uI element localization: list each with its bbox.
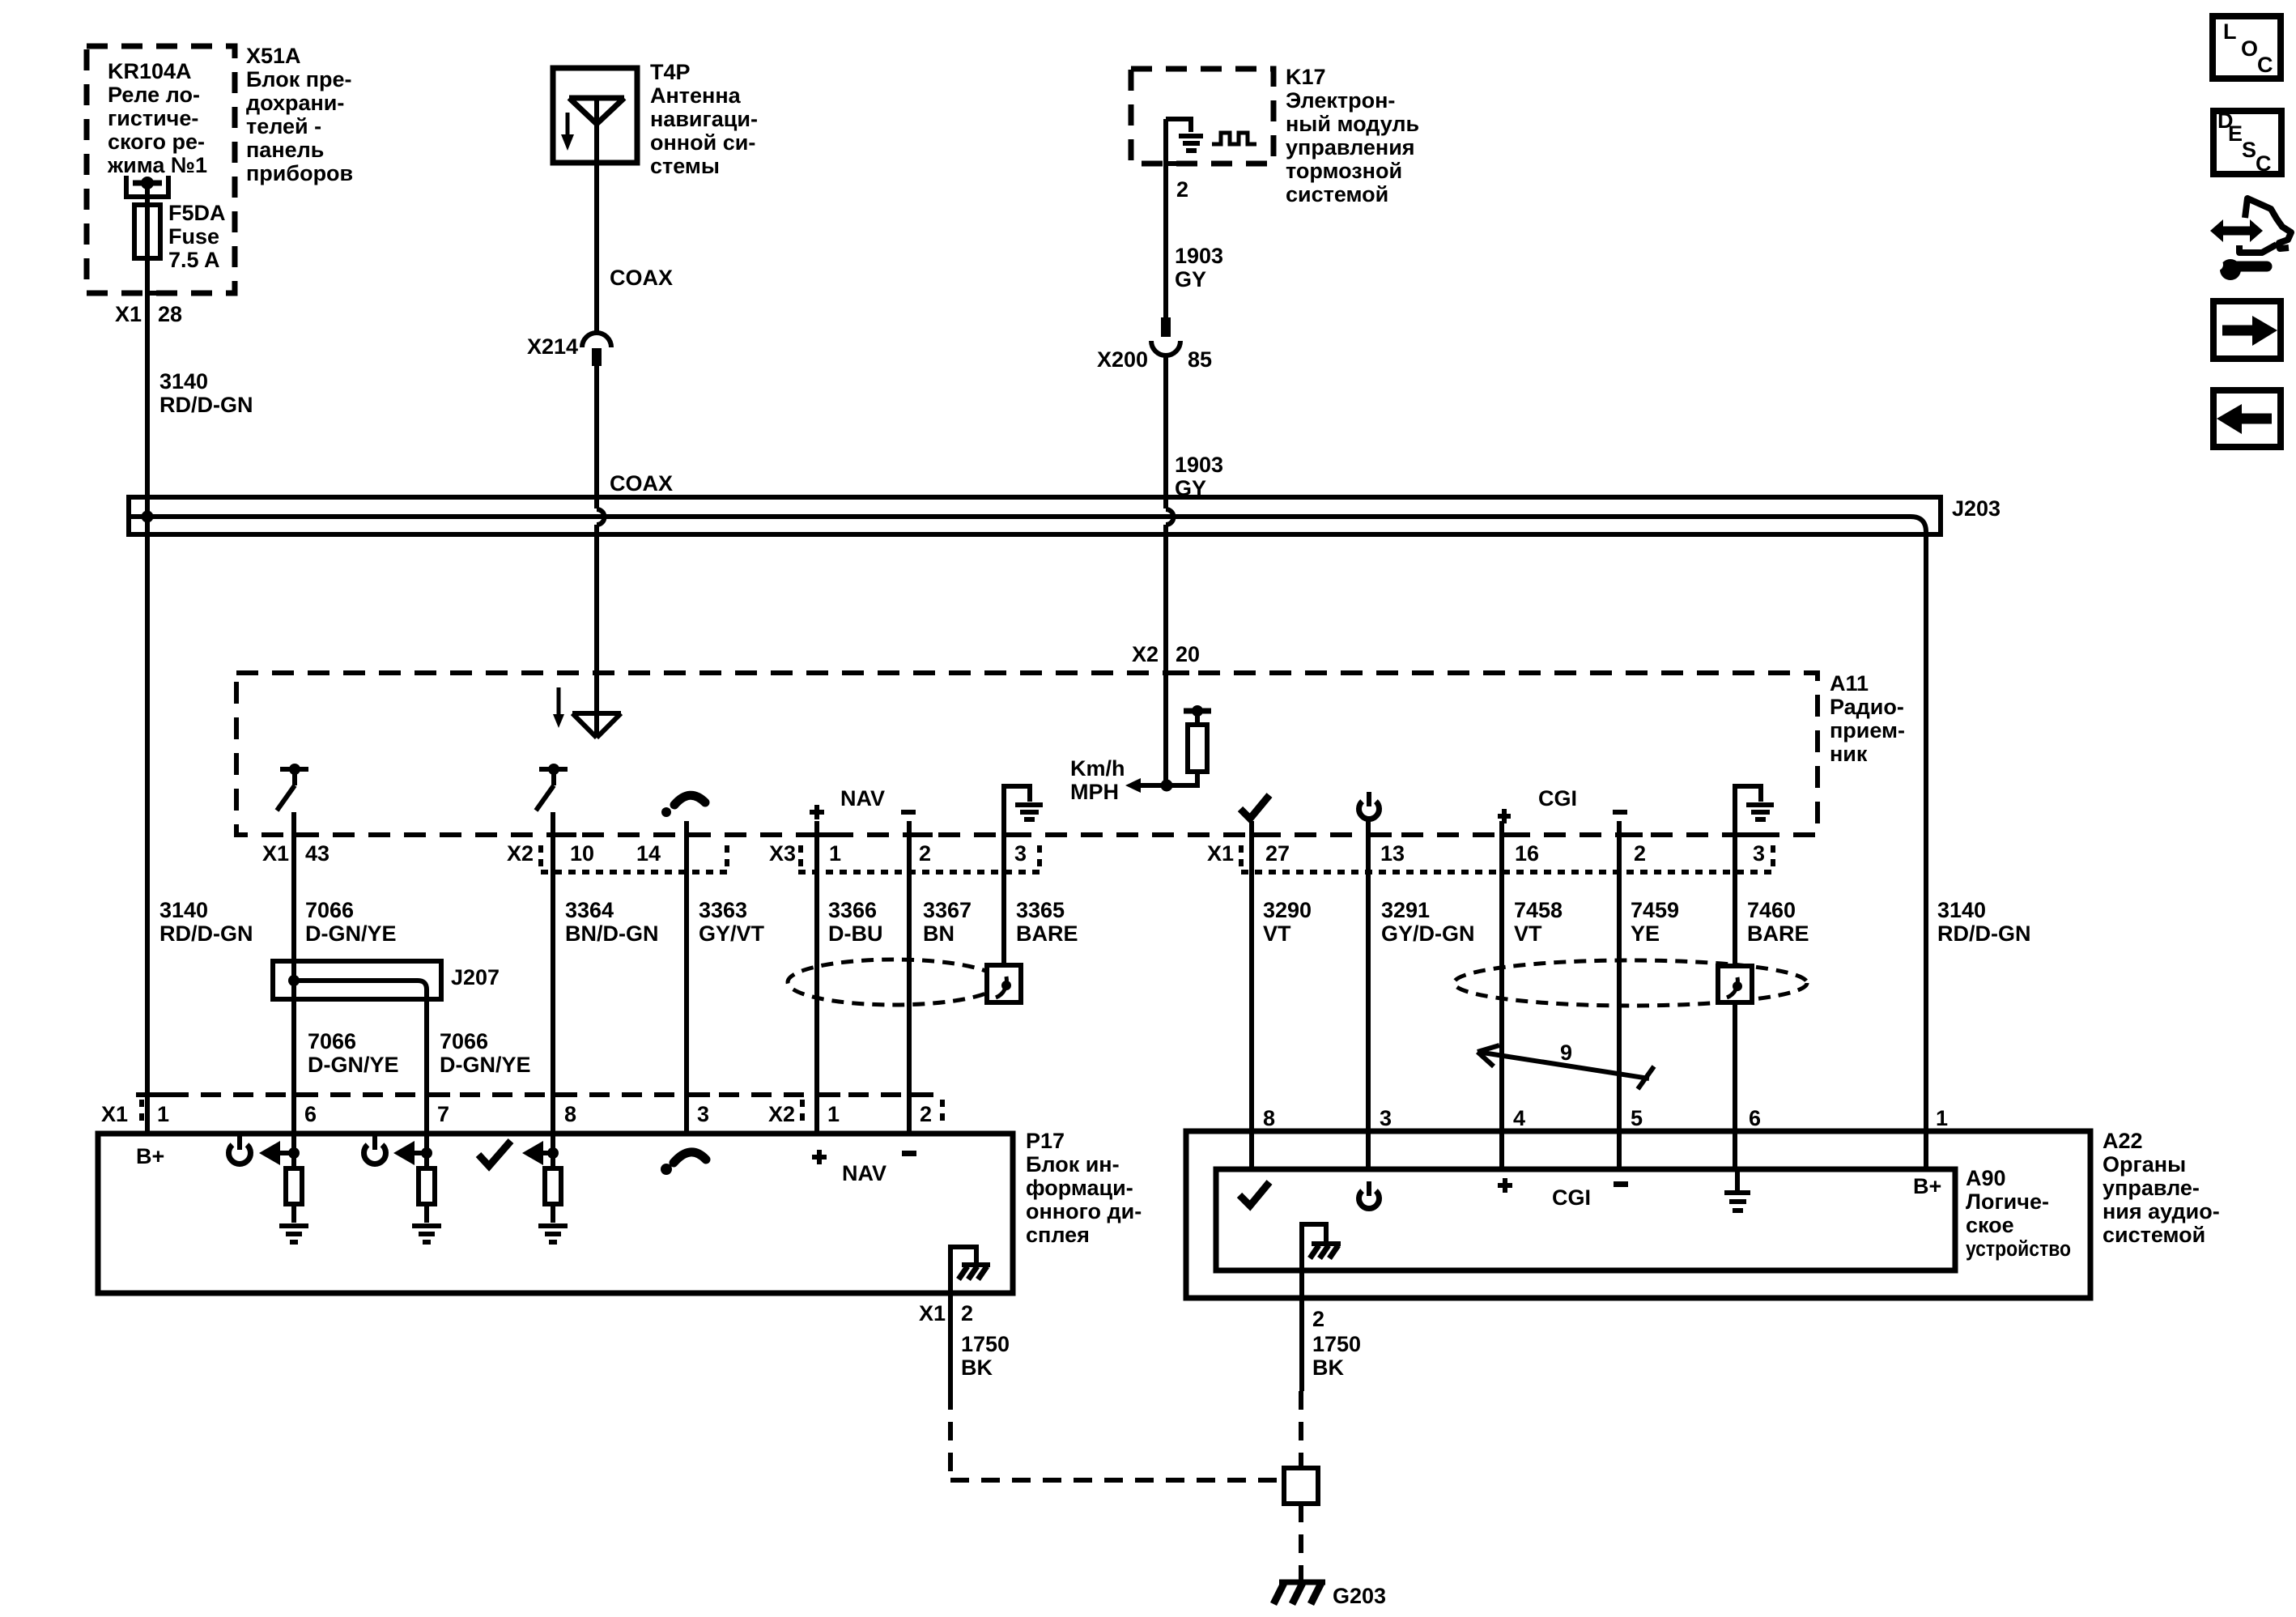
svg-text:сплея: сплея (1026, 1223, 1090, 1247)
svg-text:1: 1 (1936, 1106, 1948, 1130)
svg-text:27: 27 (1265, 841, 1290, 866)
svg-text:1750: 1750 (1312, 1332, 1361, 1356)
svg-text:X1: X1 (919, 1301, 946, 1326)
svg-text:J207: J207 (451, 965, 500, 989)
svg-text:гистиче-: гистиче- (108, 106, 198, 130)
svg-text:T4P: T4P (650, 60, 691, 84)
svg-text:7066: 7066 (305, 898, 354, 922)
svg-text:20: 20 (1176, 642, 1200, 666)
svg-text:GY/VT: GY/VT (699, 921, 765, 946)
svg-text:7458: 7458 (1514, 898, 1563, 922)
svg-text:GY: GY (1175, 267, 1206, 291)
svg-text:онной си-: онной си- (650, 130, 755, 155)
svg-text:E: E (2228, 121, 2243, 146)
svg-text:9: 9 (1560, 1040, 1572, 1065)
svg-text:Fuse: Fuse (168, 224, 219, 249)
svg-text:B+: B+ (136, 1144, 164, 1168)
svg-text:4: 4 (1513, 1106, 1525, 1130)
svg-text:7066: 7066 (440, 1029, 488, 1053)
svg-text:3364: 3364 (565, 898, 614, 922)
svg-text:BARE: BARE (1016, 921, 1078, 946)
svg-text:7.5 A: 7.5 A (168, 248, 220, 272)
svg-text:2: 2 (1634, 841, 1646, 866)
svg-text:3363: 3363 (699, 898, 747, 922)
svg-text:X2: X2 (507, 841, 534, 866)
svg-text:F5DA: F5DA (168, 201, 226, 225)
svg-text:Антенна: Антенна (650, 83, 742, 108)
svg-text:3291: 3291 (1381, 898, 1430, 922)
svg-text:MPH: MPH (1070, 780, 1119, 804)
svg-text:85: 85 (1188, 347, 1212, 372)
svg-text:1903: 1903 (1175, 453, 1223, 477)
svg-text:системой: системой (2103, 1223, 2205, 1247)
svg-text:ник: ник (1830, 742, 1868, 766)
svg-text:Органы: Органы (2103, 1152, 2186, 1177)
svg-text:A90: A90 (1966, 1166, 2006, 1190)
svg-text:D-BU: D-BU (828, 921, 883, 946)
svg-text:стемы: стемы (650, 154, 720, 178)
svg-text:ского ре-: ского ре- (108, 130, 205, 154)
svg-text:3140: 3140 (1937, 898, 1986, 922)
svg-text:A22: A22 (2103, 1129, 2143, 1153)
svg-text:7460: 7460 (1747, 898, 1796, 922)
svg-text:C: C (2256, 151, 2272, 176)
svg-text:тормозной: тормозной (1286, 159, 1402, 183)
svg-text:8: 8 (564, 1102, 576, 1126)
svg-text:BN: BN (923, 921, 955, 946)
svg-text:KR104A: KR104A (108, 59, 192, 83)
svg-text:3: 3 (1753, 841, 1765, 866)
svg-text:BK: BK (961, 1355, 993, 1380)
svg-text:D-GN/YE: D-GN/YE (305, 921, 397, 946)
svg-text:X200: X200 (1097, 347, 1148, 372)
svg-text:CGI: CGI (1538, 786, 1577, 811)
svg-text:Реле ло-: Реле ло- (108, 83, 200, 107)
svg-text:J203: J203 (1952, 496, 2000, 521)
svg-text:CGI: CGI (1552, 1185, 1591, 1210)
svg-text:3: 3 (1014, 841, 1027, 866)
svg-text:навигаци-: навигаци- (650, 107, 758, 131)
svg-text:X1: X1 (101, 1102, 128, 1126)
svg-text:Km/h: Km/h (1070, 756, 1125, 781)
svg-text:1750: 1750 (961, 1332, 1010, 1356)
svg-text:1: 1 (157, 1102, 169, 1126)
svg-text:3290: 3290 (1263, 898, 1312, 922)
svg-text:VT: VT (1263, 921, 1291, 946)
svg-text:GY/D-GN: GY/D-GN (1381, 921, 1475, 946)
svg-text:16: 16 (1515, 841, 1539, 866)
svg-text:6: 6 (1749, 1106, 1761, 1130)
svg-text:Блок пре-: Блок пре- (246, 67, 352, 91)
svg-text:BARE: BARE (1747, 921, 1809, 946)
svg-text:NAV: NAV (840, 786, 885, 811)
svg-text:14: 14 (636, 841, 661, 866)
svg-text:устройство: устройство (1966, 1236, 2071, 1261)
svg-text:3140: 3140 (159, 369, 208, 394)
svg-text:P17: P17 (1026, 1129, 1065, 1153)
svg-text:7: 7 (437, 1102, 449, 1126)
svg-text:NAV: NAV (842, 1161, 887, 1185)
svg-text:RD/D-GN: RD/D-GN (1937, 921, 2031, 946)
svg-text:X1: X1 (115, 302, 142, 326)
svg-text:управле-: управле- (2103, 1176, 2200, 1200)
svg-text:COAX: COAX (610, 266, 673, 290)
svg-text:3365: 3365 (1016, 898, 1065, 922)
svg-text:C: C (2257, 53, 2273, 77)
svg-text:S: S (2242, 138, 2256, 162)
svg-text:B+: B+ (1913, 1174, 1941, 1198)
svg-text:X1: X1 (262, 841, 289, 866)
svg-text:системой: системой (1286, 182, 1388, 206)
svg-text:X214: X214 (527, 334, 578, 359)
svg-text:A11: A11 (1830, 671, 1869, 696)
svg-text:1: 1 (827, 1102, 840, 1126)
svg-text:X2: X2 (768, 1102, 795, 1126)
svg-text:13: 13 (1380, 841, 1405, 866)
svg-text:3: 3 (697, 1102, 709, 1126)
svg-text:BN/D-GN: BN/D-GN (565, 921, 659, 946)
svg-text:X1: X1 (1207, 841, 1234, 866)
svg-text:1903: 1903 (1175, 244, 1223, 268)
svg-text:X2: X2 (1132, 642, 1159, 666)
svg-text:телей -: телей - (246, 114, 321, 138)
svg-text:формаци-: формаци- (1026, 1176, 1133, 1200)
svg-text:RD/D-GN: RD/D-GN (159, 393, 253, 417)
svg-text:O: O (2241, 36, 2258, 61)
svg-text:Радио-: Радио- (1830, 695, 1904, 719)
svg-text:2: 2 (961, 1301, 973, 1326)
svg-text:5: 5 (1631, 1106, 1643, 1130)
svg-text:дохрани-: дохрани- (246, 91, 344, 115)
svg-text:3140: 3140 (159, 898, 208, 922)
svg-text:L: L (2223, 19, 2237, 44)
svg-text:Электрон-: Электрон- (1286, 88, 1395, 113)
svg-text:YE: YE (1631, 921, 1660, 946)
svg-text:ный модуль: ный модуль (1286, 112, 1419, 136)
svg-text:GY: GY (1175, 476, 1206, 500)
svg-text:панель: панель (246, 138, 324, 162)
svg-text:ское: ское (1966, 1213, 2014, 1237)
svg-text:G203: G203 (1333, 1584, 1386, 1608)
svg-text:3366: 3366 (828, 898, 877, 922)
svg-text:2: 2 (1312, 1307, 1324, 1331)
svg-text:2: 2 (919, 841, 931, 866)
svg-text:Логиче-: Логиче- (1966, 1189, 2049, 1214)
svg-text:приборов: приборов (246, 161, 353, 185)
svg-text:COAX: COAX (610, 471, 673, 496)
svg-text:D-GN/YE: D-GN/YE (308, 1053, 399, 1077)
svg-text:VT: VT (1514, 921, 1542, 946)
svg-text:X3: X3 (769, 841, 796, 866)
svg-text:управления: управления (1286, 135, 1415, 160)
svg-text:3: 3 (1380, 1106, 1392, 1130)
svg-text:RD/D-GN: RD/D-GN (159, 921, 253, 946)
svg-text:онного ди-: онного ди- (1026, 1199, 1142, 1223)
svg-text:ния аудио-: ния аудио- (2103, 1199, 2220, 1223)
svg-text:BK: BK (1312, 1355, 1344, 1380)
svg-text:28: 28 (158, 302, 182, 326)
svg-text:7459: 7459 (1631, 898, 1679, 922)
svg-text:43: 43 (305, 841, 330, 866)
svg-text:2: 2 (920, 1102, 932, 1126)
svg-text:прием-: прием- (1830, 718, 1905, 743)
svg-text:D-GN/YE: D-GN/YE (440, 1053, 531, 1077)
svg-text:Блок ин-: Блок ин- (1026, 1152, 1120, 1177)
svg-text:X51A: X51A (246, 44, 301, 68)
svg-text:7066: 7066 (308, 1029, 356, 1053)
svg-text:8: 8 (1263, 1106, 1275, 1130)
svg-text:6: 6 (304, 1102, 317, 1126)
svg-text:1: 1 (829, 841, 841, 866)
svg-text:10: 10 (570, 841, 594, 866)
svg-text:жима №1: жима №1 (107, 153, 207, 177)
svg-text:3367: 3367 (923, 898, 972, 922)
svg-text:2: 2 (1176, 177, 1188, 202)
svg-text:K17: K17 (1286, 65, 1326, 89)
